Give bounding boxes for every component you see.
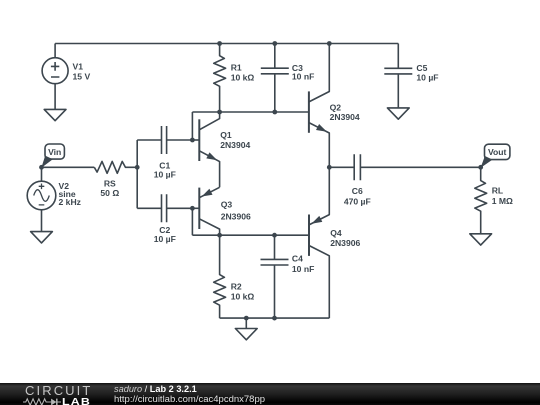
svg-text:10 kΩ: 10 kΩ (231, 292, 255, 302)
svg-text:10 kΩ: 10 kΩ (231, 73, 255, 83)
capacitor C1 (137, 126, 192, 154)
node dot Vout (478, 165, 483, 170)
node dot R1 bottom (217, 110, 222, 115)
svg-text:470 µF: 470 µF (344, 197, 371, 207)
node dot C4 top (272, 233, 277, 238)
ground (below C5) (387, 108, 409, 119)
pointer Vin flag (41, 156, 53, 168)
arrow Q2 emitter (316, 124, 327, 132)
svg-text:Vout: Vout (488, 147, 507, 157)
transistor Q1 (192, 112, 219, 187)
svg-text:R2: R2 (231, 281, 242, 291)
resistor R1 (214, 44, 226, 113)
node dot Vin (39, 165, 44, 170)
svg-text:Q2: Q2 (330, 102, 342, 112)
node dot rail Q2 (327, 41, 332, 46)
svg-text:10 µF: 10 µF (154, 170, 176, 180)
svg-text:Q4: Q4 (330, 228, 342, 238)
wire Vin row (42, 166, 95, 168)
pointer Vout flag (481, 156, 493, 168)
svg-text:15 V: 15 V (73, 71, 91, 81)
svg-text:RS: RS (104, 178, 116, 188)
wire bottom rail (220, 317, 330, 319)
capacitor C6 (329, 154, 480, 180)
svg-text:2N3906: 2N3906 (330, 238, 360, 248)
svg-text:2N3906: 2N3906 (221, 211, 251, 221)
svg-text:Q1: Q1 (220, 130, 232, 140)
transistor Q2 (309, 44, 329, 168)
resistor R2 (214, 235, 226, 318)
capacitor C3 (261, 44, 289, 113)
svg-text:10 µF: 10 µF (416, 73, 438, 83)
capacitor C4 (261, 235, 289, 318)
wire top mid (Q1 collector to Q2 base) (192, 111, 309, 113)
node dot Q3 base (190, 206, 195, 211)
svg-text:V1: V1 (73, 61, 84, 71)
svg-text:10 µF: 10 µF (154, 234, 176, 244)
wire bottom mid (Q3 collector to Q4 base) (192, 234, 309, 236)
node dot C3 bottom (272, 110, 277, 115)
ground (below V2) (31, 232, 53, 243)
node dot ground bottom (244, 316, 249, 321)
ground (bottom rail) (235, 318, 257, 340)
wire diode-connection Q1 (191, 112, 193, 140)
svg-text:2N3904: 2N3904 (220, 140, 250, 150)
arrow Q4 emitter (311, 216, 322, 224)
footer title text (114, 385, 265, 404)
svg-text:1 MΩ: 1 MΩ (492, 196, 513, 206)
svg-text:10 nF: 10 nF (292, 264, 314, 274)
transistor Q3 (192, 187, 219, 235)
wire input split vertical (136, 140, 138, 208)
node dot R2 top (217, 233, 222, 238)
svg-text:R1: R1 (231, 62, 242, 72)
voltage source V2 (sine) (27, 167, 56, 231)
ground (below RL) (470, 234, 492, 245)
svg-text:50 Ω: 50 Ω (100, 188, 119, 198)
svg-text:10 nF: 10 nF (292, 71, 314, 81)
transistor Q4 (309, 167, 329, 318)
node dot Q1 base (190, 138, 195, 143)
arrow Q1 emitter (206, 152, 217, 160)
ground (below V1) (44, 109, 66, 120)
node dot RS/C1/C2 junction (135, 165, 140, 170)
svg-text:Vin: Vin (48, 147, 61, 157)
wire diode-connection Q3 (191, 208, 193, 235)
svg-text:Q3: Q3 (221, 200, 233, 210)
wire top rail (55, 43, 398, 45)
capacitor C2 (137, 194, 192, 222)
node dot C4 bottom (272, 316, 277, 321)
resistor RL (475, 167, 487, 234)
node dot rail R1 (217, 41, 222, 46)
svg-text:C4: C4 (292, 254, 303, 264)
node dot rail C3 (272, 41, 277, 46)
svg-text:C6: C6 (352, 186, 363, 196)
node dot emitter junction C6 (327, 165, 332, 170)
capacitor C5 (384, 44, 412, 108)
CircuitLab logo (25, 385, 95, 404)
resistor RS (94, 161, 137, 173)
arrow Q3 emitter (202, 189, 213, 197)
footer bar (0, 383, 540, 405)
svg-text:2 kHz: 2 kHz (59, 197, 81, 207)
svg-text:RL: RL (492, 186, 503, 196)
net flag Vout (485, 144, 510, 159)
svg-text:2N3904: 2N3904 (330, 112, 360, 122)
net flag Vin (45, 144, 64, 159)
voltage source V1 (42, 44, 68, 110)
